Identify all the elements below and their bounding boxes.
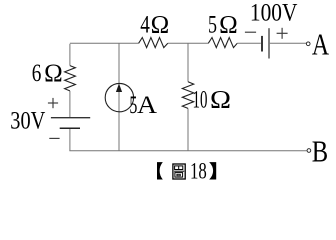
svg-text:Ω: Ω — [210, 87, 231, 114]
resistor 4-ohm (horizontal zigzag, top rail) — [139, 38, 168, 48]
wire: top rail from battery positive plate to terminal A — [270, 42, 306, 44]
resistor 10-ohm (vertical zigzag, middle branch) — [182, 82, 193, 109]
battery 30V positive long plate — [51, 117, 90, 119]
terminal B node circle — [307, 149, 311, 153]
svg-text:18: 18 — [190, 158, 207, 183]
svg-text:100V: 100V — [250, 0, 298, 26]
caption opening lenticular bracket — [157, 162, 163, 179]
battery 100V plus sign — [277, 28, 288, 39]
svg-text:30V: 30V — [10, 108, 45, 135]
svg-text:6: 6 — [32, 60, 42, 87]
svg-text:5: 5 — [208, 12, 217, 39]
svg-text:Ω: Ω — [44, 60, 63, 87]
svg-text:4: 4 — [140, 12, 150, 39]
wire: left branch middle (6-ohm to 30V battery) — [69, 91, 71, 117]
svg-text:Ω: Ω — [219, 12, 238, 39]
battery 100V negative short plate — [261, 36, 263, 52]
caption closing lenticular bracket — [209, 162, 216, 179]
wire: top rail between 4-ohm and 5-ohm (junction with 10-ohm branch) — [168, 42, 209, 44]
current source 5A circle — [105, 83, 133, 111]
svg-text:10: 10 — [193, 87, 208, 114]
battery 30V plus sign — [48, 98, 58, 108]
battery 100V minus sign — [245, 31, 256, 33]
svg-text:A: A — [312, 28, 329, 62]
svg-text:A: A — [137, 92, 157, 119]
wire: 10-ohm branch upper — [187, 43, 189, 82]
svg-text:B: B — [312, 135, 328, 169]
wire: top rail left segment (node junction with 5A branch) — [70, 42, 139, 44]
caption Chinese character 'tu' (figure) drawn as glyph sketch — [173, 164, 185, 179]
wire: top rail from 5-ohm to battery negative plate — [237, 42, 261, 44]
battery 30V minus sign — [49, 137, 59, 139]
current source arrow head (pointing up) — [116, 84, 122, 93]
resistor 5-ohm (horizontal zigzag, top rail) — [208, 38, 237, 48]
terminal A node circle — [306, 42, 310, 46]
battery 100V positive long plate — [268, 28, 270, 58]
wire: 10-ohm branch lower — [187, 108, 189, 150]
wire: bottom rail to terminal B — [69, 150, 306, 152]
battery 30V negative short plate — [60, 127, 80, 129]
resistor 6-ohm (vertical zigzag, left branch) — [65, 66, 76, 91]
wire: left branch upper (top corner to 6-ohm) — [69, 44, 71, 66]
wire: 5A current-source branch (vertical through circle) — [118, 43, 120, 151]
svg-text:Ω: Ω — [151, 12, 170, 39]
wire: left branch lower (30V battery to bottom rail) — [69, 129, 71, 151]
